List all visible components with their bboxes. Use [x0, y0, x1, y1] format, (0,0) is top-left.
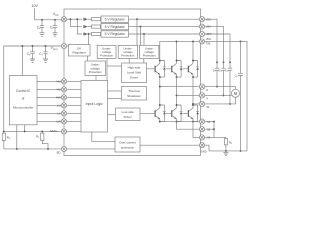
wire W to motor: [205, 97, 236, 104]
resistor R5: [41, 131, 43, 133]
svg-text:M: M: [234, 91, 238, 96]
wire logic-thermal 2: [108, 98, 122, 100]
wire control box supply drop: [21, 46, 23, 77]
svg-text:C9: C9: [213, 69, 216, 72]
svg-text:Driver: Driver: [130, 75, 138, 79]
wire UVP1-logic drop: [106, 59, 108, 81]
node Rs gnd: [225, 150, 227, 152]
node row3 drop: [76, 18, 78, 20]
wire S2 sense: [205, 128, 214, 130]
wire GND rail: [204, 145, 247, 151]
wire HV pin stub: [67, 88, 81, 90]
svg-text:ED: ED: [57, 151, 61, 155]
node V phase: [176, 94, 178, 96]
pin ED: [61, 146, 66, 151]
svg-text:C11: C11: [225, 69, 229, 72]
wire HV: [37, 88, 62, 90]
transistor Q2 (high-side V): [171, 60, 182, 79]
node reg3 UVP drop: [143, 33, 145, 35]
svg-text:V: V: [206, 97, 208, 101]
pin LV: [61, 111, 66, 116]
node U phase: [159, 86, 161, 88]
svg-text:Microcontroller: Microcontroller: [13, 105, 33, 109]
wire LU: [37, 104, 62, 106]
svg-text:Driver: Driver: [124, 115, 132, 119]
capacitor C9 (bootstrap U): [215, 62, 219, 86]
wire V phase: [177, 94, 200, 96]
svg-text:C10: C10: [218, 69, 222, 72]
wire control EMG drop: [24, 125, 26, 132]
svg-text:Input Logic: Input Logic: [86, 102, 103, 106]
node C5 tap: [54, 19, 56, 21]
node EMG-rail junction: [3, 130, 5, 132]
node EMG control junction: [24, 130, 26, 132]
transistor Q6 (low-side W): [188, 104, 199, 123]
resistor row3: [92, 32, 101, 35]
wire LS gate bus: [140, 112, 188, 114]
resistor Rs: [224, 139, 227, 145]
pin VBW: [199, 31, 204, 36]
wire UVP4-logic stub: [95, 76, 97, 81]
wire Vreg-UVP4 stub: [87, 56, 89, 61]
wire LS V collector drop: [176, 95, 178, 105]
svg-text:Protection: Protection: [121, 54, 134, 58]
wire HW: [37, 96, 62, 98]
pin VBV: [199, 24, 204, 29]
wire S1 sense: [205, 121, 214, 123]
node CBV-V: [223, 94, 225, 96]
ground Rs: [223, 152, 228, 155]
wire LW pin stub: [67, 120, 81, 122]
wire LS W collector drop: [192, 104, 194, 105]
wire HU: [37, 80, 62, 82]
node R5 tap: [41, 130, 43, 132]
wire EMG pin stub: [67, 130, 81, 132]
pin HV: [61, 87, 66, 92]
wire U phase: [160, 86, 200, 88]
svg-text:C8: C8: [235, 74, 238, 77]
pin U: [199, 84, 204, 89]
svg-text:TIM: TIM: [206, 42, 210, 46]
wire ED line: [67, 148, 115, 150]
wire reg3 output: [129, 33, 200, 35]
pin VCC: [61, 17, 66, 22]
pin LU: [61, 103, 66, 108]
wire V to motor: [205, 94, 232, 96]
wire OC-GND sense: [140, 144, 199, 146]
wire HU pin stub: [67, 80, 81, 82]
node C8-gnd: [240, 150, 242, 152]
svg-text:HV: HV: [57, 88, 61, 92]
pin W: [199, 101, 204, 106]
wire W emitter drop: [192, 77, 194, 104]
wire LW: [37, 120, 62, 122]
node T2 rail: [176, 40, 178, 42]
node reg1 UVP drop: [136, 18, 138, 20]
wire U emitter drop: [159, 77, 161, 87]
wire S3 sense: [205, 136, 214, 138]
svg-text:U: U: [206, 88, 208, 92]
pin VDC: [199, 39, 204, 44]
capacitor C4: [40, 20, 45, 36]
svg-text:LW: LW: [57, 120, 61, 124]
svg-text:W: W: [206, 105, 209, 109]
svg-text:Regulator: Regulator: [72, 51, 85, 55]
node reg2 UVP drop: [139, 26, 141, 28]
wire reg1 output: [129, 18, 200, 20]
block Under-voltage Protection 4: [85, 61, 106, 76]
svg-text:5 V Regulator: 5 V Regulator: [105, 25, 126, 29]
wire S3 emitter sense: [193, 122, 199, 138]
wire logic-LS driver: [108, 113, 116, 115]
capacitor C5: [53, 20, 58, 36]
svg-text:Level Shift: Level Shift: [127, 70, 141, 74]
wire LV pin stub: [67, 112, 81, 114]
pin S1: [199, 119, 204, 124]
diode D2: [83, 25, 91, 28]
wire row3 drop: [77, 19, 82, 34]
node C4 tap: [41, 19, 43, 21]
wire EMG line: [4, 130, 62, 132]
wire UVP2-driver stub: [128, 59, 130, 64]
node row2 drop: [69, 18, 71, 20]
svg-text:protection: protection: [121, 146, 135, 150]
node CBU: [216, 61, 218, 63]
pin S3: [199, 135, 204, 140]
pin S2: [199, 127, 204, 132]
wire sense bus: [214, 122, 226, 139]
svg-text:5 V Regulator: 5 V Regulator: [105, 17, 126, 21]
svg-text:Protection: Protection: [89, 70, 102, 74]
wire logic-thermal 1: [108, 90, 122, 92]
wire VBV bootstrap: [205, 27, 224, 63]
node CBW-W: [229, 103, 231, 105]
node S1 bus: [213, 121, 215, 123]
resistor row2: [92, 25, 101, 28]
pin EMG: [61, 129, 66, 134]
wire S2 emitter sense: [177, 122, 200, 130]
pin LW: [61, 119, 66, 124]
transistor Q1 (high-side U): [155, 60, 166, 79]
block Input Logic: [81, 81, 108, 133]
pin HW: [61, 95, 66, 100]
node Vreg input tap: [88, 33, 90, 35]
transistor Q4 (low-side U): [155, 104, 166, 123]
wire VDC external: [205, 41, 247, 150]
svg-text:Protection: Protection: [100, 54, 113, 58]
capacitor C10 (bootstrap V): [221, 62, 225, 95]
wire T2 collector riser: [176, 41, 178, 60]
node T3 rail: [192, 40, 194, 42]
wire LV: [37, 112, 62, 114]
wire HW pin stub: [67, 96, 81, 98]
node C6 tap: [32, 45, 34, 47]
transistor Q5 (low-side V): [171, 104, 182, 123]
diode D3: [83, 32, 91, 35]
svg-text:HU: HU: [56, 80, 60, 84]
pin HU: [61, 79, 66, 84]
pin VREG: [61, 43, 66, 48]
svg-text:EMG: EMG: [50, 129, 58, 133]
svg-text:Control IC: Control IC: [16, 89, 31, 93]
wire V emitter drop: [176, 77, 178, 95]
block Control IC or Microcontroller: [9, 76, 37, 125]
wire T3 collector riser: [192, 41, 194, 60]
block Low-side Driver: [116, 108, 141, 121]
capacitor C11 (bootstrap W): [228, 62, 232, 104]
svg-text:Thermal: Thermal: [128, 89, 140, 93]
node CBW: [229, 61, 231, 63]
wire LU pin stub: [67, 104, 81, 106]
wire U to motor: [205, 87, 236, 90]
svg-text:Protection: Protection: [143, 54, 156, 58]
resistor R0: [3, 131, 5, 133]
svg-text:Shutdown: Shutdown: [127, 94, 141, 98]
block 5V Regulator 2: [101, 23, 129, 29]
pin GND: [199, 143, 204, 148]
pin VBU: [199, 17, 204, 22]
wire LS emitter rail / S1: [160, 121, 200, 123]
block Over current protection: [115, 137, 140, 152]
svg-text:5 V Regulator: 5 V Regulator: [105, 32, 126, 36]
wire row2 drop: [70, 19, 82, 26]
wire LS U collector drop: [159, 87, 161, 105]
node CBU-U: [216, 86, 218, 88]
capacitor C8 (DC link): [238, 41, 243, 150]
node C8 tap: [240, 40, 242, 42]
svg-text:10V: 10V: [32, 4, 39, 8]
node S2 bus: [213, 128, 215, 130]
block 5V Regulator 3: [101, 31, 129, 37]
wire reg2 output: [129, 26, 200, 28]
package outline: [64, 9, 201, 156]
wire VBU bootstrap: [205, 19, 217, 62]
svg-text:LU: LU: [57, 104, 61, 108]
svg-text:High-side: High-side: [128, 65, 141, 69]
block 5V Regulator (Vreg): [69, 45, 91, 57]
motor M: [232, 89, 240, 97]
wire Vreg pin stub: [67, 45, 69, 47]
wire logic-HS driver: [108, 65, 122, 67]
wire VCC row1: [67, 18, 82, 20]
capacitor C7: [43, 46, 48, 62]
svg-text:VDC: VDC: [206, 37, 212, 41]
block Under-voltage Protection 2: [118, 45, 137, 58]
wire Vreg rail: [4, 46, 62, 131]
node C7 tap: [45, 45, 47, 47]
wire Vreg regulator input drop: [88, 34, 90, 45]
wire W phase: [193, 103, 199, 105]
block Under-voltage Protection 1: [97, 45, 116, 58]
block 5V Regulator 1: [101, 16, 129, 22]
wire VBW bootstrap: [205, 34, 230, 62]
svg-text:LV: LV: [57, 112, 60, 116]
node R5-ED junction: [47, 148, 49, 150]
resistor row1: [92, 18, 101, 21]
svg-text:HW: HW: [56, 96, 61, 100]
node W phase: [192, 103, 194, 105]
svg-text:GND: GND: [201, 149, 207, 153]
wire logic-OC drop: [92, 132, 115, 141]
wire UVP3-driver stub: [143, 59, 145, 64]
block Thermal Shutdown: [122, 87, 147, 101]
transistor Q3 (high-side W): [188, 60, 199, 79]
node control supply tap: [21, 45, 23, 47]
svg-text:Low-side: Low-side: [122, 110, 135, 114]
wire VDC top rail: [160, 41, 200, 60]
svg-text:Over current: Over current: [119, 141, 136, 145]
wire 10V feed down: [35, 8, 62, 20]
wire ED rail: [4, 148, 62, 150]
capacitor C6: [30, 46, 35, 62]
node control-ED junction: [16, 148, 18, 150]
block High-side Level Shift Driver: [122, 63, 147, 83]
node CBV: [223, 61, 225, 63]
wire UVP feed drops: [137, 19, 144, 45]
diode D1: [83, 18, 91, 21]
block Under-voltage Protection 3: [139, 45, 159, 58]
wire control ground drop: [16, 125, 18, 149]
pin V: [199, 93, 204, 98]
wire HS gate bus: [147, 68, 188, 70]
